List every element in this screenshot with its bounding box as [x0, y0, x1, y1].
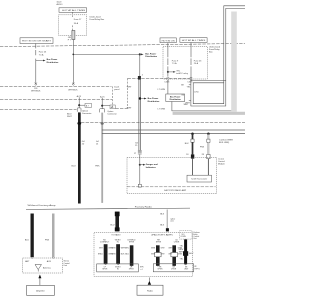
svg-text:GRY: GRY — [99, 247, 104, 249]
svg-text:CONNECT: CONNECT — [100, 241, 110, 243]
svg-text:Bus Power: Bus Power — [47, 58, 58, 61]
svg-text:AS Y: AS Y — [189, 252, 194, 255]
svg-text:GRY: GRY — [161, 247, 166, 249]
svg-text:7.5 A: 7.5 A — [172, 62, 177, 65]
svg-text:BLU: BLU — [125, 254, 129, 256]
svg-text:7.5 A: 7.5 A — [39, 53, 44, 56]
svg-text:Module: Module — [218, 164, 226, 166]
svg-text:S-CM Transceiver: S-CM Transceiver — [191, 179, 207, 181]
svg-text:BLK: BLK — [185, 143, 190, 145]
svg-text:+ 4: + 4 — [140, 269, 143, 271]
svg-text:Without Factory Amp: Without Factory Amp — [28, 204, 57, 207]
svg-text:BLU: BLU — [25, 239, 30, 241]
svg-text:WHT/BLK: WHT/BLK — [31, 90, 41, 92]
svg-text:Unit: Unit — [193, 237, 197, 240]
svg-text:HOT AT ALL TIMES: HOT AT ALL TIMES — [62, 9, 86, 12]
svg-text:HOT AT ALL TIMES: HOT AT ALL TIMES — [182, 39, 206, 42]
svg-text:FACTORY RADIO AMP: FACTORY RADIO AMP — [164, 189, 186, 192]
svg-text:GRN: GRN — [111, 254, 116, 256]
svg-text:BLK: BLK — [160, 214, 165, 216]
svg-text:CONN: CONN — [180, 236, 186, 238]
svg-text:WHT/BLK: WHT/BLK — [68, 89, 78, 91]
svg-text:AUX: AUX — [47, 260, 52, 263]
svg-text:Distribution: Distribution — [47, 61, 59, 64]
svg-text:20 A: 20 A — [194, 62, 199, 65]
svg-text:LT GRN: LT GRN — [158, 108, 166, 110]
svg-text:Gauges and: Gauges and — [146, 164, 159, 166]
svg-text:PNK: PNK — [200, 147, 205, 149]
svg-text:C750: C750 — [194, 91, 199, 93]
svg-text:A 9: A 9 — [111, 106, 114, 109]
svg-text:Distribution: Distribution — [170, 98, 182, 101]
svg-text:HOT IN ON OR START: HOT IN ON OR START — [22, 40, 52, 43]
svg-text:GRY: GRY — [168, 247, 173, 249]
svg-text:GRN: GRN — [151, 247, 156, 249]
svg-text:ANT: ANT — [25, 260, 30, 263]
svg-text:Connector: Connector — [107, 113, 117, 116]
svg-text:BLU: BLU — [71, 165, 76, 167]
svg-text:30 A: 30 A — [74, 22, 79, 25]
svg-text:to ACC relay: to ACC relay — [176, 72, 189, 75]
svg-text:SPKR: SPKR — [102, 269, 108, 271]
svg-text:WHT: WHT — [127, 87, 132, 89]
svg-text:GRY: GRY — [168, 254, 173, 256]
svg-text:Bus Power: Bus Power — [148, 97, 159, 100]
svg-text:Amplifier: Amplifier — [36, 290, 45, 293]
svg-text:PNK: PNK — [45, 239, 50, 241]
svg-text:PNK: PNK — [95, 165, 100, 167]
svg-text:BLU: BLU — [110, 224, 115, 226]
svg-text:Distribution: Distribution — [145, 55, 157, 58]
svg-text:SPKR: SPKR — [158, 269, 164, 271]
svg-text:Indicators: Indicators — [146, 166, 157, 169]
svg-text:Fuse/Relay Box: Fuse/Relay Box — [90, 19, 106, 21]
svg-text:GRN: GRN — [111, 247, 116, 249]
svg-text:Bus Power: Bus Power — [170, 96, 181, 98]
svg-text:C303: C303 — [164, 81, 170, 83]
svg-text:WHT: WHT — [127, 107, 132, 109]
svg-text:WHT: WHT — [184, 104, 189, 106]
svg-text:wire: wire — [170, 220, 173, 223]
svg-text:GRN: GRN — [178, 254, 183, 256]
svg-text:Connector: Connector — [82, 112, 92, 115]
svg-text:Radio: Radio — [147, 290, 153, 292]
svg-text:CHGR: CHGR — [171, 269, 177, 271]
svg-text:CHGR: CHGR — [174, 241, 180, 243]
svg-text:Antenna: Antenna — [43, 266, 52, 269]
svg-text:SHLD: SHLD — [98, 254, 104, 256]
svg-text:A 7: A 7 — [86, 104, 89, 107]
svg-text:Fuse 17: Fuse 17 — [74, 19, 82, 21]
svg-text:SPKR: SPKR — [129, 241, 135, 243]
svg-text:panel: panel — [114, 89, 120, 91]
svg-text:BUS LINE): BUS LINE) — [219, 142, 229, 144]
svg-text:THF S: THF S — [194, 268, 200, 270]
svg-text:GRN: GRN — [151, 254, 156, 256]
svg-text:YEL: YEL — [180, 259, 184, 261]
svg-text:SPKR: SPKR — [156, 241, 162, 243]
svg-text:Bus Power: Bus Power — [145, 52, 156, 55]
svg-text:(FACTORY AMP): (FACTORY AMP) — [152, 233, 174, 236]
svg-text:Factory Radio: Factory Radio — [135, 206, 153, 209]
svg-text:YEL: YEL — [180, 245, 184, 247]
svg-text:GRY: GRY — [161, 254, 166, 256]
svg-text:TO RADIO: TO RADIO — [111, 233, 121, 236]
svg-text:AUDIO: AUDIO — [57, 3, 64, 6]
svg-text:WHT: WHT — [67, 116, 72, 118]
svg-text:SPKR: SPKR — [129, 269, 135, 271]
svg-text:C305: C305 — [187, 81, 193, 83]
svg-text:BLK: BLK — [160, 224, 165, 226]
svg-text:HOT IN ON: HOT IN ON — [162, 40, 176, 42]
svg-text:WHL: WHL — [125, 247, 129, 249]
svg-text:Distribution: Distribution — [148, 100, 160, 103]
svg-text:Unit: Unit — [64, 264, 68, 267]
svg-text:LT GRN: LT GRN — [158, 89, 166, 91]
